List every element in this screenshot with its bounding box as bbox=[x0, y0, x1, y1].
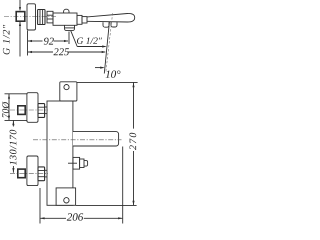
centerline lower inlet (front view) bbox=[10, 172, 48, 174]
aerator under spout bbox=[103, 22, 117, 27]
centerline inlet (top view) bbox=[4, 15, 57, 17]
valve body (top view) bbox=[53, 13, 77, 25]
label G 1/2 inlet thread (left, vertical) bbox=[3, 25, 10, 55]
dome cap on body bbox=[64, 9, 69, 13]
spout base rings (top view) bbox=[77, 15, 87, 24]
leader line inlet thread (top view) bbox=[19, 0, 21, 57]
extension line bracket top (270) bbox=[77, 81, 138, 83]
label G 1/2 outlet thread (top) bbox=[77, 38, 102, 44]
mixer body (front view) bbox=[47, 101, 73, 205]
spout bar (front view) bbox=[73, 132, 119, 146]
extension line from flange (left) bbox=[27, 31, 29, 56]
upper union nut (front view) bbox=[38, 104, 47, 118]
top bracket with hole bbox=[60, 82, 77, 101]
extension line nut face (206) bbox=[39, 188, 41, 224]
extension line spout tip (206) bbox=[122, 147, 124, 224]
lower union nut (front view) bbox=[38, 167, 47, 181]
upper inlet stub (front view) bbox=[18, 106, 25, 115]
extension line flange bottom (dia 70) bbox=[5, 119, 28, 121]
lower inlet stub (front view) bbox=[18, 169, 25, 178]
angle reference line (solid) bbox=[104, 22, 109, 74]
dimension dia 70 bbox=[8, 94, 10, 120]
spout (top view) bbox=[87, 13, 135, 22]
G 1/2 label underline with arrow bbox=[77, 45, 106, 47]
hose connector (front view) bbox=[68, 157, 88, 169]
leader to G 1/2 label bbox=[71, 31, 77, 47]
label 10 degrees bbox=[106, 71, 121, 78]
dimension 130/170 bbox=[12, 121, 14, 173]
spout axis line (dashed, tilted 10 deg) bbox=[106, 13, 113, 71]
wall flange (top view) bbox=[27, 4, 36, 30]
inlet stub (top view) bbox=[16, 12, 25, 22]
upper wall flange (front view) bbox=[27, 93, 38, 123]
extension line from shower outlet bbox=[68, 32, 70, 45]
bottom bracket with hole bbox=[56, 188, 76, 205]
angle arrow bbox=[95, 67, 105, 69]
dimension 270 bbox=[132, 83, 134, 206]
lower wall flange (front view) bbox=[27, 156, 38, 186]
dimension 92 bbox=[28, 40, 69, 42]
extension line body bottom (270) bbox=[76, 204, 137, 206]
shower outlet fitting under body (top view) bbox=[65, 25, 75, 30]
extension line flange top (dia 70) bbox=[5, 93, 28, 95]
union cylinder (top view) bbox=[47, 11, 53, 23]
union nut (top view) bbox=[38, 10, 45, 25]
dimension 206 bbox=[40, 217, 122, 219]
dimension 225 bbox=[28, 51, 107, 53]
spout centerline (front view) bbox=[33, 139, 122, 141]
centerline upper inlet (front view) bbox=[10, 109, 48, 111]
